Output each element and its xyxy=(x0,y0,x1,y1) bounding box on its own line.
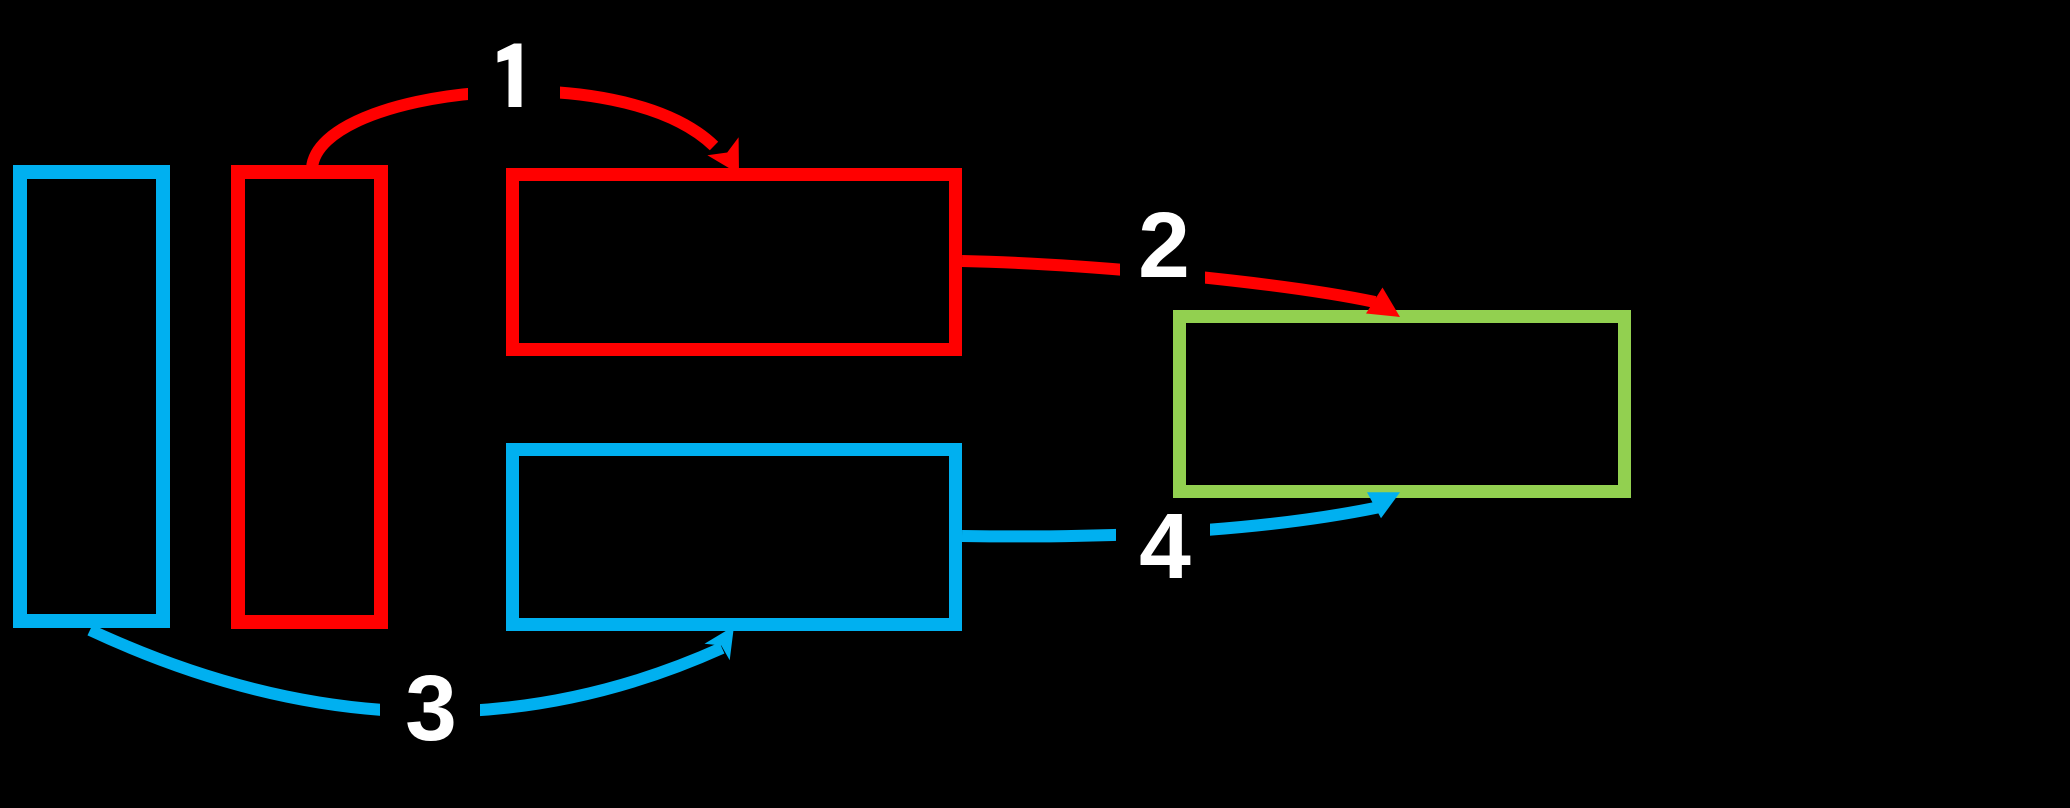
red horizontal rectangle (top middle) xyxy=(513,175,956,350)
arrow 2 head xyxy=(1366,288,1400,318)
label 3 background xyxy=(380,664,480,764)
arrow 4 curve: blue horizontal rect right to green rect bottom xyxy=(962,507,1380,536)
arrow 3 curve: blue vertical rect bottom to blue horizontal rect bottom xyxy=(90,630,722,712)
red vertical rectangle xyxy=(238,172,381,622)
label 2 background xyxy=(1120,200,1205,296)
label 1 background xyxy=(468,28,560,126)
arrow 3 head xyxy=(705,626,735,660)
label 1 xyxy=(498,44,522,108)
arrow 4 head xyxy=(1367,492,1400,518)
svg-text:2: 2 xyxy=(1138,193,1190,297)
green rectangle (right) xyxy=(1180,317,1625,492)
label 4 background xyxy=(1116,503,1210,595)
svg-text:4: 4 xyxy=(1139,494,1191,598)
svg-text:3: 3 xyxy=(405,656,457,760)
blue horizontal rectangle (bottom middle) xyxy=(513,450,956,625)
arrow 1 curve: red vertical rect top to red horizontal rect top xyxy=(312,91,714,168)
arrow 1 head xyxy=(707,137,739,174)
blue vertical rectangle (left) xyxy=(20,172,163,621)
arrow 2 curve: red horizontal rect right to green rect top xyxy=(962,261,1375,302)
